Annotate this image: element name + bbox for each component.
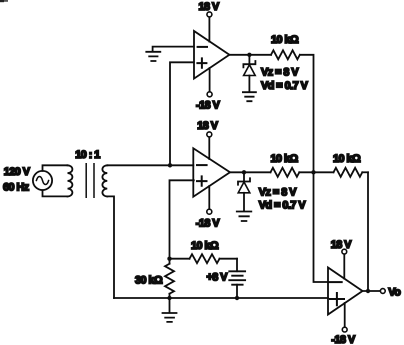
resistor R3 feedback 10k bbox=[314, 168, 369, 177]
svg-text:10 kΩ: 10 kΩ bbox=[271, 34, 299, 46]
node U1 output junction dot bbox=[247, 53, 251, 57]
node U3 output junction dot bbox=[366, 289, 370, 293]
svg-text:10 kΩ: 10 kΩ bbox=[191, 240, 219, 252]
wire secondary bottom down to rail bbox=[107, 196, 114, 298]
svg-text:10 kΩ: 10 kΩ bbox=[333, 153, 361, 165]
zener diode D1 bbox=[243, 55, 255, 92]
svg-text:+8 V: +8 V bbox=[207, 271, 229, 283]
resistor R2 10k bbox=[271, 168, 300, 177]
terminal Vo bbox=[380, 289, 385, 294]
ground at D1 bbox=[243, 92, 256, 101]
ground at U1 inverting input bbox=[146, 52, 160, 61]
transformer T1 secondary winding bbox=[102, 165, 107, 196]
svg-text:-18 V: -18 V bbox=[331, 334, 356, 345]
node U2 output junction dot bbox=[242, 170, 246, 174]
svg-text:18 V: 18 V bbox=[331, 239, 353, 251]
svg-text:Vz = 8 V: Vz = 8 V bbox=[261, 66, 299, 78]
svg-text:10 : 1: 10 : 1 bbox=[75, 149, 100, 161]
U3 +18V supply terminal bbox=[342, 249, 347, 278]
wire R2 to node B bbox=[299, 171, 313, 173]
op-amp U1 bbox=[194, 31, 229, 79]
U2 +18V supply terminal bbox=[207, 132, 212, 159]
svg-text:60 Hz: 60 Hz bbox=[3, 182, 30, 194]
U1 -18V supply terminal bbox=[207, 68, 212, 97]
node B junction dot bbox=[311, 170, 315, 174]
resistor R4 10k bbox=[170, 254, 238, 263]
op-amp U2 bbox=[193, 148, 230, 196]
U1 +18V supply terminal bbox=[207, 12, 212, 42]
svg-text:Vd = 0.7 V: Vd = 0.7 V bbox=[259, 199, 307, 211]
wire R1 to vertical bus bbox=[300, 55, 314, 173]
wire source bottom to primary bbox=[43, 190, 68, 196]
svg-text:30 kΩ: 30 kΩ bbox=[135, 274, 163, 286]
node rail-ground junction dot bbox=[167, 296, 171, 300]
wire R3 down to U3 output bbox=[367, 172, 369, 291]
svg-text:Vz = 8 V: Vz = 8 V bbox=[259, 186, 297, 198]
node C junction dot bbox=[167, 257, 171, 261]
wire U2 output to R2 bbox=[230, 171, 271, 173]
svg-text:120 V: 120 V bbox=[4, 166, 31, 178]
svg-text:18 V: 18 V bbox=[197, 120, 219, 132]
zener diode D2 bbox=[238, 172, 250, 211]
wire bottom rail bbox=[114, 297, 328, 299]
node A junction dot bbox=[168, 163, 172, 167]
wire U2 noninverting input down to node C bbox=[170, 180, 194, 258]
wire U3 output bbox=[363, 290, 381, 292]
ground at rail bbox=[163, 298, 177, 322]
svg-text:10 kΩ: 10 kΩ bbox=[271, 153, 299, 165]
ground at D2 bbox=[237, 212, 252, 222]
resistor R5 30k bbox=[165, 259, 174, 298]
wire secondary top to U2 inverting input bbox=[107, 164, 193, 166]
wire U1 inverting input to ground bbox=[153, 47, 194, 52]
U3 -18V supply terminal bbox=[342, 303, 347, 332]
ac source V1 bbox=[33, 171, 52, 190]
U2 -18V supply terminal bbox=[207, 186, 212, 214]
wire U1 output to R1 bbox=[229, 54, 271, 56]
wire U1 noninverting input down to node A bbox=[170, 62, 194, 165]
svg-text:18 V: 18 V bbox=[199, 1, 221, 13]
node battery-rail junction dot bbox=[235, 296, 239, 300]
battery B1 +8V bbox=[229, 259, 245, 298]
op-amp U3 bbox=[328, 268, 363, 315]
svg-text:-18 V: -18 V bbox=[196, 218, 221, 230]
transformer T1 core bbox=[86, 164, 94, 197]
wire node B down to U3 inverting input bbox=[314, 172, 329, 282]
wire source top to primary bbox=[43, 165, 68, 171]
resistor R1 10k bbox=[271, 50, 300, 59]
svg-text:Vd = 0.7 V: Vd = 0.7 V bbox=[261, 80, 309, 92]
transformer T1 primary winding bbox=[68, 165, 73, 196]
svg-text:-18 V: -18 V bbox=[196, 99, 221, 111]
svg-text:Vo: Vo bbox=[388, 286, 401, 298]
